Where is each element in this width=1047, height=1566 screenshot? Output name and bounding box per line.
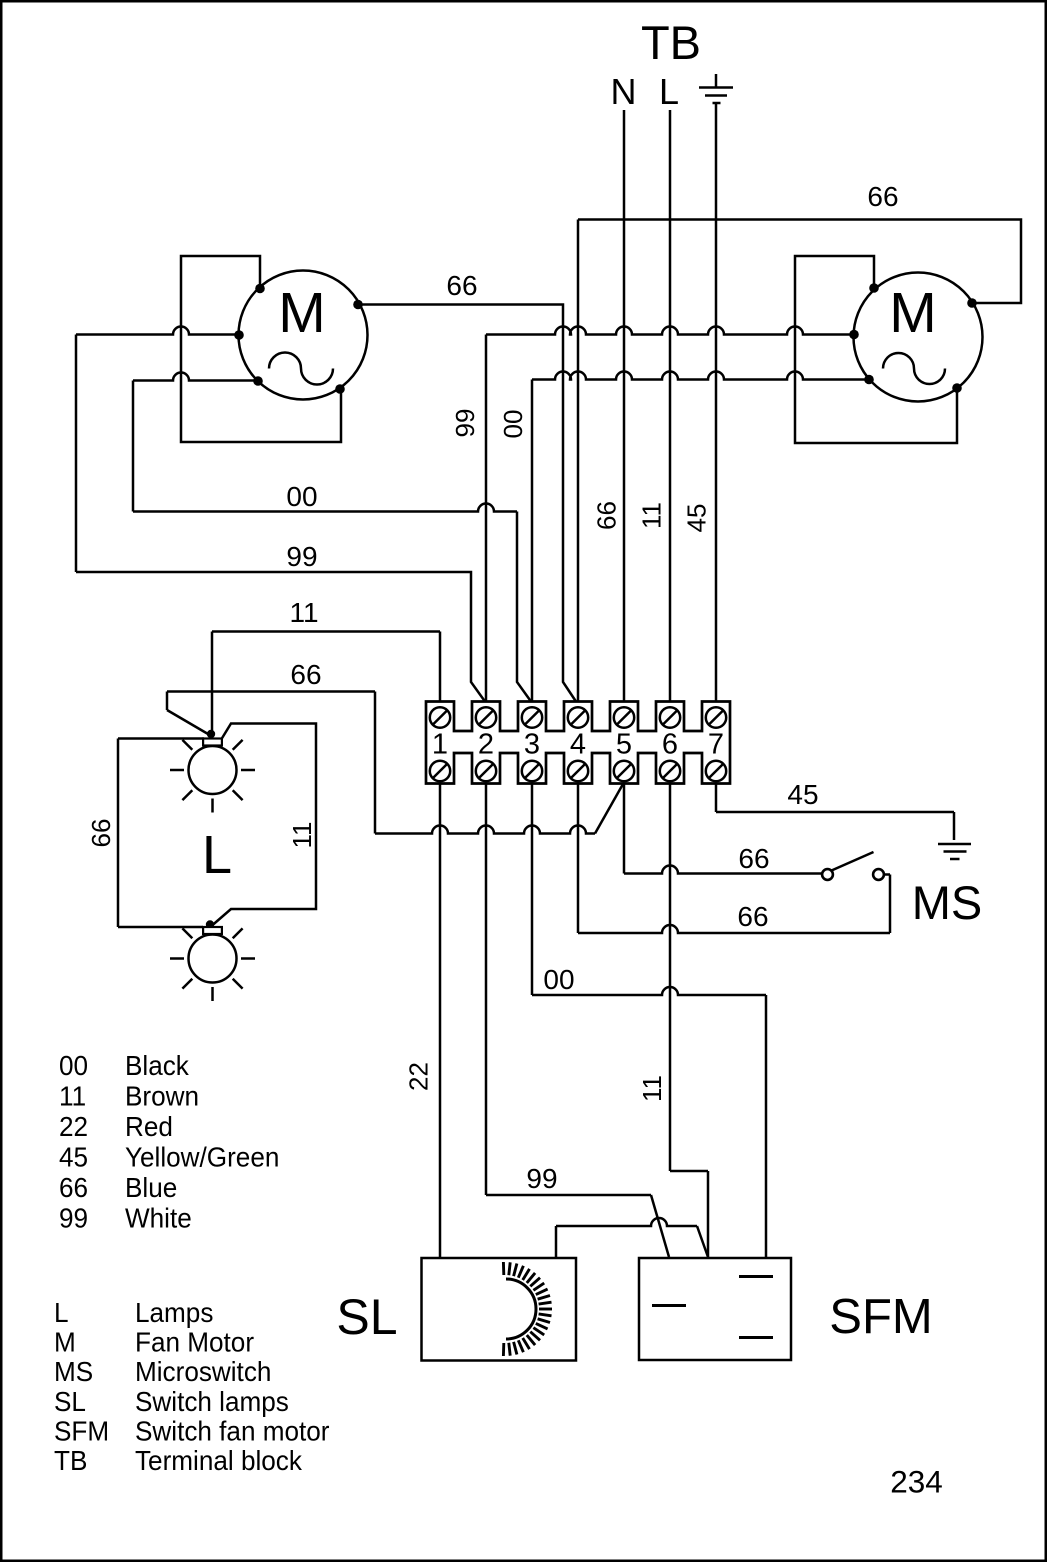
svg-text:Switch lamps: Switch lamps <box>135 1386 289 1417</box>
svg-text:7: 7 <box>708 729 724 761</box>
svg-text:Red: Red <box>125 1111 173 1142</box>
svg-text:M: M <box>278 281 325 345</box>
svg-text:SFM: SFM <box>54 1416 109 1447</box>
svg-text:Lamps: Lamps <box>135 1297 213 1328</box>
svg-text:MS: MS <box>912 876 983 929</box>
svg-text:Brown: Brown <box>125 1081 199 1112</box>
svg-text:3: 3 <box>524 729 540 761</box>
svg-text:11: 11 <box>637 502 667 529</box>
svg-text:L: L <box>54 1297 69 1328</box>
svg-text:L: L <box>659 71 679 112</box>
svg-text:99: 99 <box>526 1163 557 1194</box>
svg-text:234: 234 <box>890 1464 943 1500</box>
svg-text:SL: SL <box>336 1289 397 1345</box>
svg-text:00: 00 <box>286 481 317 512</box>
svg-text:L: L <box>202 825 232 885</box>
svg-text:99: 99 <box>286 541 317 572</box>
svg-text:11: 11 <box>289 597 318 628</box>
svg-text:00: 00 <box>498 410 528 439</box>
svg-text:TB: TB <box>54 1445 87 1476</box>
svg-text:5: 5 <box>616 729 632 761</box>
svg-text:White: White <box>125 1203 192 1234</box>
svg-text:22: 22 <box>59 1111 88 1142</box>
svg-text:45: 45 <box>787 779 818 810</box>
svg-text:M: M <box>54 1327 76 1358</box>
svg-text:Blue: Blue <box>125 1172 177 1203</box>
svg-text:Switch fan motor: Switch fan motor <box>135 1416 330 1447</box>
svg-text:66: 66 <box>738 843 769 874</box>
svg-text:M: M <box>889 281 936 345</box>
svg-text:4: 4 <box>570 729 586 761</box>
svg-text:Yellow/Green: Yellow/Green <box>125 1142 279 1173</box>
svg-text:6: 6 <box>662 729 678 761</box>
svg-text:66: 66 <box>867 181 898 212</box>
svg-text:N: N <box>611 71 637 112</box>
svg-text:00: 00 <box>543 964 574 995</box>
svg-text:66: 66 <box>592 501 622 530</box>
svg-text:11: 11 <box>59 1081 86 1112</box>
svg-text:99: 99 <box>450 409 480 438</box>
svg-text:2: 2 <box>478 729 494 761</box>
svg-text:SL: SL <box>54 1386 86 1417</box>
svg-text:Terminal block: Terminal block <box>135 1445 302 1476</box>
svg-text:Microswitch: Microswitch <box>135 1357 271 1388</box>
svg-text:66: 66 <box>737 901 768 932</box>
svg-text:00: 00 <box>59 1050 88 1081</box>
svg-text:66: 66 <box>290 659 321 690</box>
svg-text:99: 99 <box>59 1203 88 1234</box>
svg-text:11: 11 <box>637 1075 667 1102</box>
svg-text:11: 11 <box>287 822 317 849</box>
svg-text:22: 22 <box>404 1062 434 1091</box>
svg-text:66: 66 <box>446 270 477 301</box>
svg-text:1: 1 <box>432 729 448 761</box>
svg-text:Fan Motor: Fan Motor <box>135 1327 254 1358</box>
svg-text:TB: TB <box>641 16 701 69</box>
svg-text:66: 66 <box>86 819 116 848</box>
svg-text:66: 66 <box>59 1172 88 1203</box>
svg-text:Black: Black <box>125 1050 189 1081</box>
svg-text:45: 45 <box>59 1142 88 1173</box>
svg-text:SFM: SFM <box>829 1290 932 1344</box>
svg-text:45: 45 <box>682 504 712 533</box>
svg-text:MS: MS <box>54 1357 93 1388</box>
